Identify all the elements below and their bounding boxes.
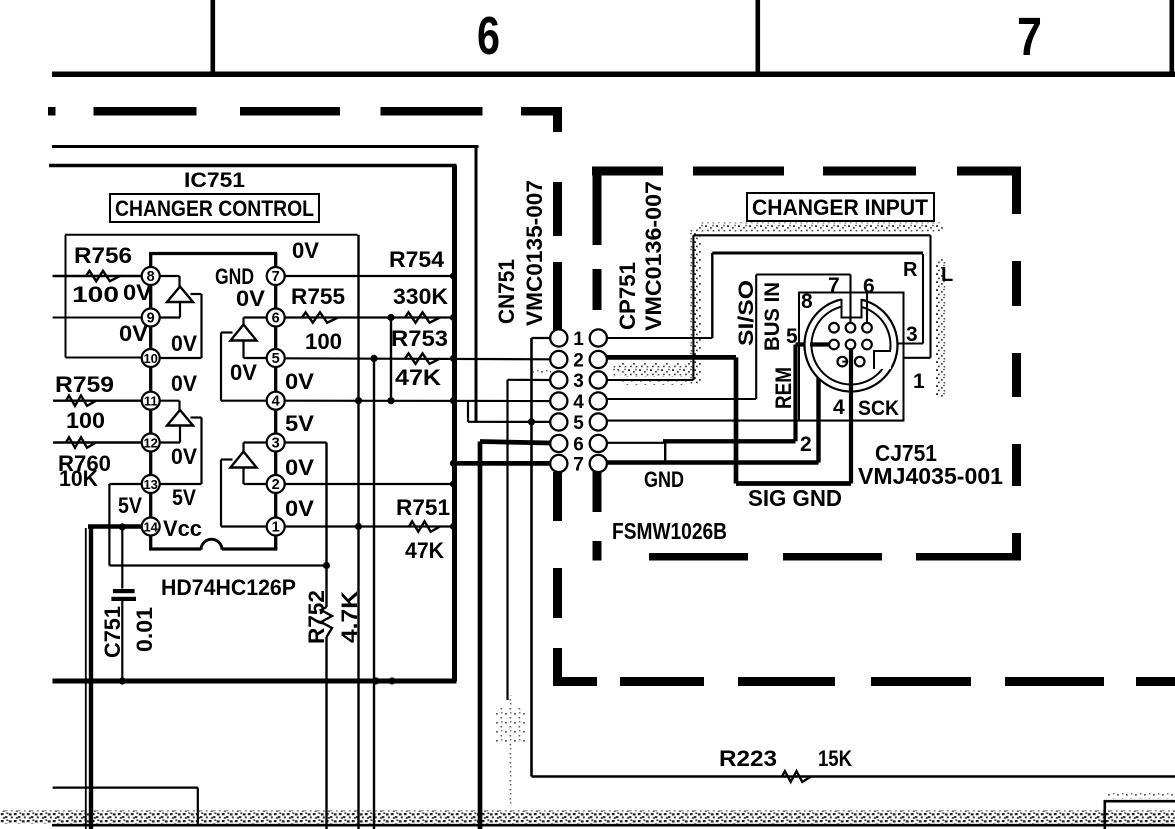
svg-text:5V: 5V — [118, 493, 142, 518]
svg-text:6: 6 — [272, 311, 280, 327]
svg-text:15K: 15K — [818, 746, 852, 771]
svg-text:4.7K: 4.7K — [337, 591, 362, 643]
svg-text:R: R — [903, 259, 918, 281]
svg-text:1: 1 — [272, 520, 280, 536]
svg-text:2: 2 — [272, 477, 280, 493]
svg-text:R759: R759 — [55, 372, 114, 397]
svg-text:CHANGER INPUT: CHANGER INPUT — [752, 195, 929, 220]
svg-text:R756: R756 — [74, 243, 132, 268]
svg-text:5: 5 — [786, 325, 798, 348]
svg-text:BUS IN: BUS IN — [761, 282, 784, 351]
svg-text:SI/SO: SI/SO — [735, 280, 758, 346]
svg-text:GND: GND — [644, 467, 684, 492]
svg-text:1: 1 — [913, 370, 925, 393]
svg-text:4: 4 — [833, 396, 845, 419]
svg-text:C751: C751 — [100, 606, 125, 658]
svg-text:Vcc: Vcc — [163, 516, 202, 541]
svg-text:12: 12 — [143, 436, 157, 451]
svg-text:VMC0136-007: VMC0136-007 — [641, 181, 666, 331]
svg-text:1: 1 — [573, 329, 584, 350]
svg-text:0V: 0V — [236, 286, 265, 311]
svg-text:CP751: CP751 — [615, 262, 640, 330]
svg-text:0.01: 0.01 — [132, 607, 157, 652]
svg-text:5: 5 — [573, 413, 584, 434]
svg-text:47K: 47K — [395, 365, 441, 390]
svg-text:2: 2 — [573, 351, 584, 372]
svg-text:8: 8 — [801, 290, 813, 313]
svg-text:10K: 10K — [59, 466, 98, 491]
svg-text:13: 13 — [143, 477, 157, 492]
svg-text:0V: 0V — [285, 496, 314, 521]
svg-text:0V: 0V — [285, 455, 314, 480]
svg-text:VMJ4035-001: VMJ4035-001 — [858, 463, 1003, 489]
svg-text:6: 6 — [863, 275, 875, 298]
svg-text:L: L — [941, 264, 953, 286]
svg-text:3: 3 — [272, 436, 280, 452]
svg-text:SIG GND: SIG GND — [748, 485, 842, 511]
svg-text:CHANGER CONTROL: CHANGER CONTROL — [115, 196, 314, 221]
svg-text:FSMW1026B: FSMW1026B — [612, 518, 727, 544]
svg-text:4: 4 — [272, 394, 280, 410]
svg-text:14: 14 — [143, 520, 158, 535]
svg-text:R754: R754 — [389, 247, 445, 272]
svg-text:R751: R751 — [396, 495, 450, 520]
svg-text:IC751: IC751 — [184, 169, 245, 192]
svg-text:3: 3 — [573, 371, 584, 392]
svg-text:7: 7 — [272, 269, 280, 285]
svg-text:CN751: CN751 — [494, 259, 519, 324]
svg-text:0V: 0V — [171, 444, 197, 469]
svg-text:6: 6 — [573, 435, 584, 456]
svg-text:5V: 5V — [172, 485, 196, 510]
svg-text:2: 2 — [800, 433, 812, 456]
svg-text:4: 4 — [573, 392, 584, 413]
svg-text:47K: 47K — [405, 538, 444, 563]
svg-text:R752: R752 — [304, 590, 329, 644]
svg-text:0V: 0V — [230, 360, 257, 385]
svg-text:7: 7 — [828, 274, 840, 297]
svg-text:0V: 0V — [292, 238, 319, 263]
svg-text:7: 7 — [1017, 7, 1042, 67]
svg-text:HD74HC126P: HD74HC126P — [161, 575, 296, 600]
svg-text:7: 7 — [573, 455, 584, 476]
svg-text:100: 100 — [305, 329, 342, 354]
svg-text:0V: 0V — [119, 321, 148, 346]
svg-text:R223: R223 — [719, 746, 777, 771]
svg-text:R755: R755 — [291, 284, 345, 309]
svg-text:100: 100 — [66, 408, 105, 433]
svg-text:3: 3 — [906, 323, 918, 346]
svg-text:100: 100 — [72, 282, 119, 307]
svg-text:5: 5 — [272, 351, 280, 367]
svg-text:6: 6 — [477, 6, 500, 66]
svg-text:330K: 330K — [393, 284, 448, 309]
svg-text:SCK: SCK — [858, 397, 899, 420]
svg-text:10: 10 — [143, 351, 157, 366]
svg-text:VMC0135-007: VMC0135-007 — [522, 180, 547, 326]
svg-text:11: 11 — [144, 394, 158, 409]
svg-text:0V: 0V — [171, 371, 197, 396]
svg-text:0V: 0V — [123, 280, 152, 305]
svg-text:REM: REM — [771, 367, 796, 409]
svg-text:0V: 0V — [285, 369, 314, 394]
svg-text:R753: R753 — [391, 326, 448, 351]
svg-text:5V: 5V — [285, 411, 314, 436]
svg-text:0V: 0V — [171, 331, 197, 356]
